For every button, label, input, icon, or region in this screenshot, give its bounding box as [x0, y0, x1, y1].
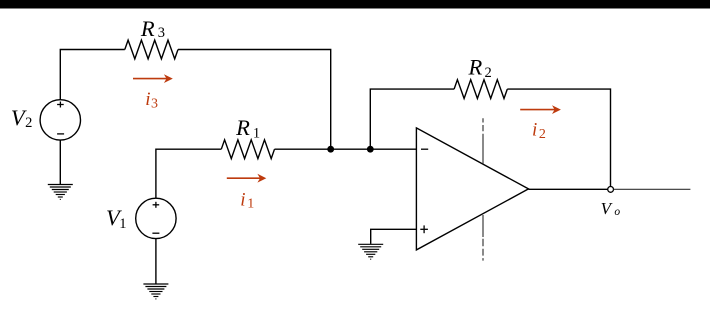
wire: V1 bottom to ground	[155, 239, 157, 284]
svg-text:2: 2	[485, 65, 492, 81]
ground at op-amp + input	[358, 244, 383, 259]
wire: output stub right of terminal	[614, 188, 691, 190]
wire: R1 right lead to op-amp input	[275, 148, 417, 150]
svg-text:1: 1	[253, 125, 260, 141]
svg-text:V: V	[601, 199, 614, 218]
op-amp inverting input minus sign	[421, 148, 428, 150]
wire: node B up to R2 left lead	[370, 89, 454, 149]
svg-text:1: 1	[119, 216, 126, 232]
voltage source V1	[136, 198, 176, 238]
svg-text:o: o	[614, 206, 620, 218]
svg-text:i: i	[532, 120, 537, 141]
svg-text:2: 2	[25, 115, 32, 131]
current arrow i3	[133, 74, 173, 83]
wire: R3 right lead and down to node A	[178, 50, 331, 150]
ground below V2	[48, 185, 73, 200]
svg-text:3: 3	[158, 25, 165, 41]
resistor R1	[221, 140, 274, 159]
svg-text:3: 3	[151, 97, 158, 112]
V1 minus sign	[152, 232, 159, 234]
wire: V1 top to R1 left lead	[156, 149, 221, 198]
svg-text:R: R	[235, 115, 250, 140]
current arrow i2	[520, 105, 561, 114]
resistor R2	[454, 80, 507, 99]
resistor R3	[125, 40, 178, 59]
svg-text:i: i	[240, 189, 245, 210]
top black border bar	[0, 0, 710, 9]
wire: non-inverting input to ground	[371, 229, 417, 244]
op-amp U1 triangle	[416, 128, 528, 250]
wire: V2 top to R3 left corner	[60, 50, 125, 100]
op-amp non-inverting input plus sign	[420, 225, 428, 233]
wire: op-amp output to terminal	[529, 188, 608, 190]
node A junction dot	[327, 146, 334, 153]
current arrow i1	[227, 174, 266, 183]
wire: V2 bottom to ground	[59, 140, 61, 184]
V1 plus sign	[153, 202, 160, 208]
ground below V1	[143, 284, 168, 299]
node B junction dot	[367, 146, 374, 153]
V2 plus sign	[57, 102, 64, 108]
V2 minus sign	[57, 133, 64, 135]
svg-text:1: 1	[247, 197, 254, 212]
voltage source V2	[40, 100, 80, 140]
svg-text:R: R	[140, 16, 155, 41]
svg-text:i: i	[145, 89, 150, 110]
output terminal Vo open circle	[608, 187, 614, 193]
dashed power supply line top	[482, 118, 484, 164]
svg-text:R: R	[468, 54, 483, 79]
wire: R2 right lead and down to output node	[507, 89, 610, 186]
svg-text:2: 2	[539, 127, 546, 142]
dashed power supply line bottom	[482, 215, 484, 261]
